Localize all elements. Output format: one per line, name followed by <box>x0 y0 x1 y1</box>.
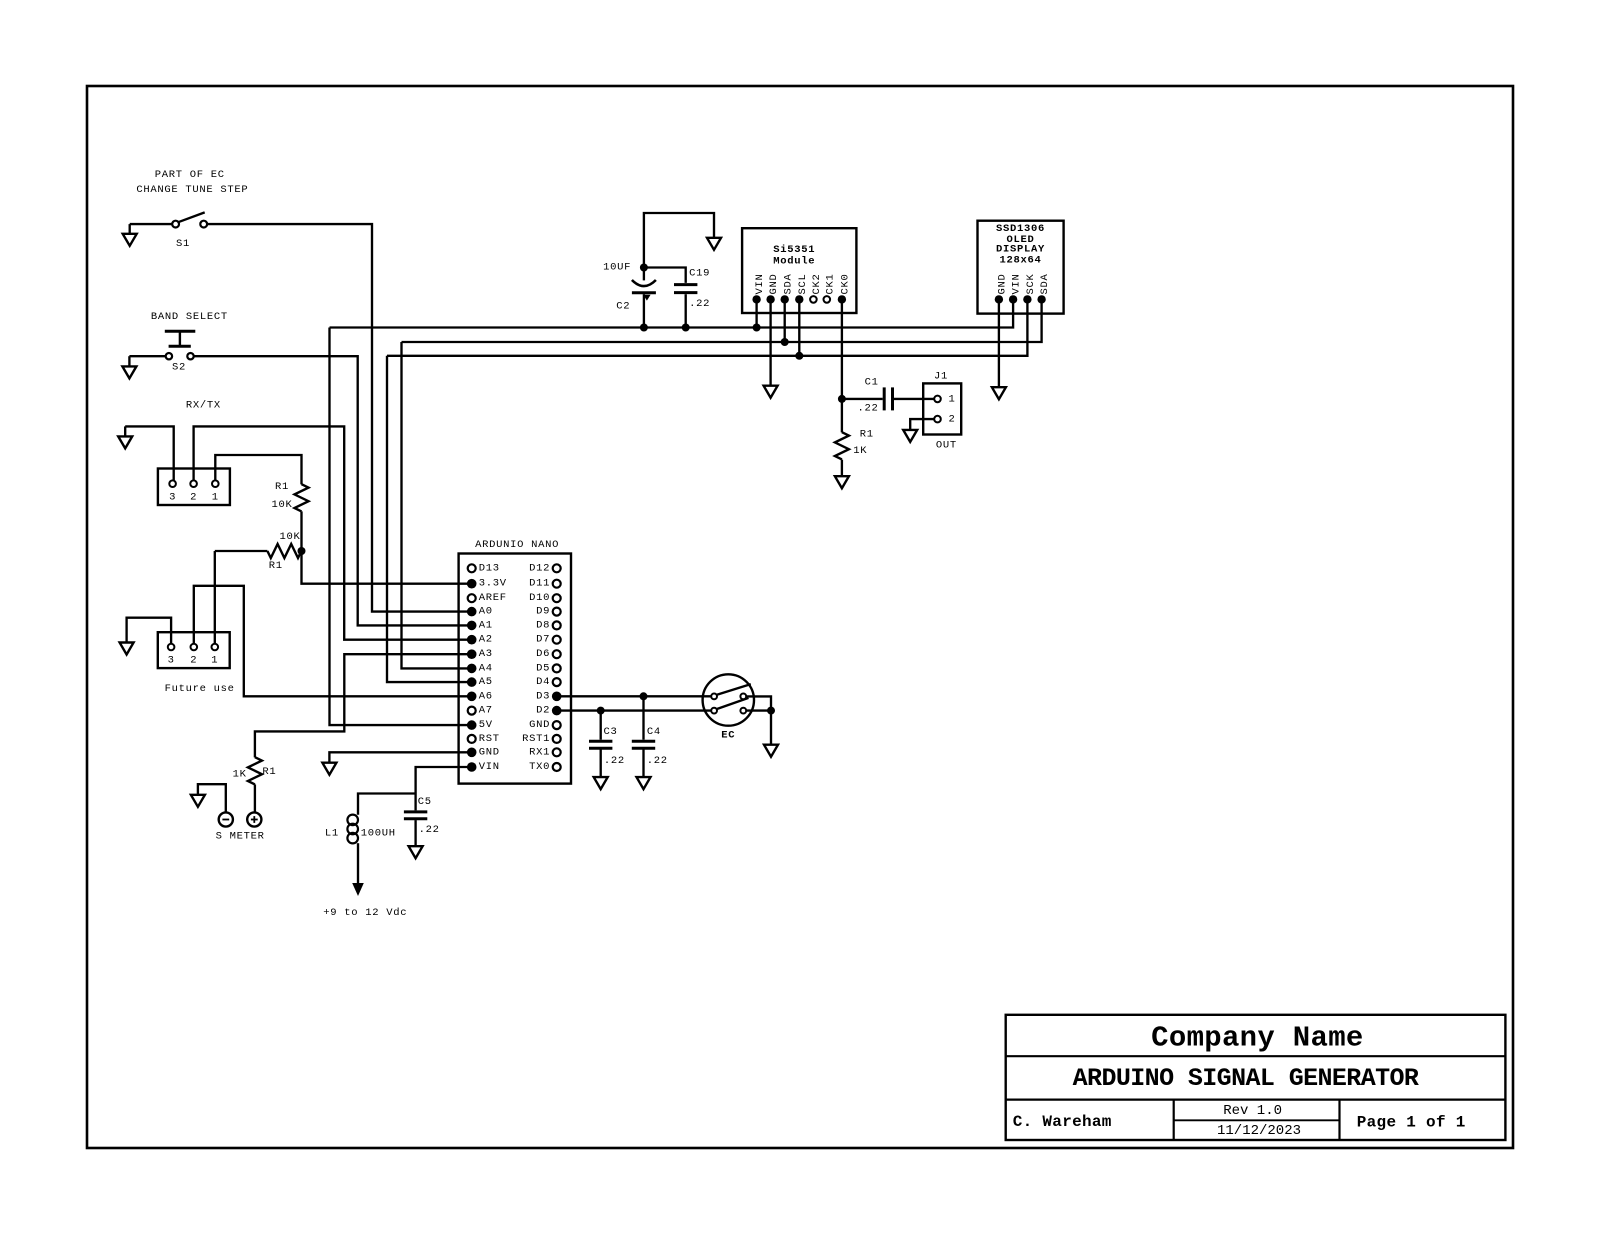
svg-text:C1: C1 <box>865 377 879 389</box>
svg-text:CK0: CK0 <box>840 273 852 294</box>
svg-text:GND: GND <box>997 273 1009 294</box>
svg-text:RST1: RST1 <box>522 733 550 745</box>
svg-text:.22: .22 <box>604 755 625 767</box>
svg-text:Rev 1.0: Rev 1.0 <box>1223 1103 1282 1119</box>
svg-text:C4: C4 <box>647 726 661 738</box>
svg-text:RX/TX: RX/TX <box>186 399 221 411</box>
svg-text:.22: .22 <box>647 755 668 767</box>
svg-text:D10: D10 <box>529 592 550 604</box>
svg-text:GND: GND <box>479 746 500 758</box>
svg-text:D6: D6 <box>536 648 550 660</box>
svg-text:A7: A7 <box>479 705 493 717</box>
svg-text:C2: C2 <box>616 301 630 313</box>
svg-text:3: 3 <box>168 655 175 667</box>
svg-text:1K: 1K <box>853 445 867 457</box>
svg-text:+9 to 12 Vdc: +9 to 12 Vdc <box>323 907 407 919</box>
svg-text:C. Wareham: C. Wareham <box>1013 1113 1112 1131</box>
svg-text:Module: Module <box>773 255 815 267</box>
svg-text:D13: D13 <box>479 562 500 574</box>
svg-text:R1: R1 <box>860 429 874 441</box>
svg-text:R1: R1 <box>269 560 283 572</box>
svg-text:.22: .22 <box>689 298 710 310</box>
svg-text:Page 1 of 1: Page 1 of 1 <box>1357 1113 1466 1131</box>
svg-text:A4: A4 <box>479 662 493 674</box>
svg-text:2: 2 <box>948 414 955 426</box>
svg-text:1K: 1K <box>233 769 247 781</box>
svg-text:A1: A1 <box>479 619 493 631</box>
svg-text:ARDUNIO NANO: ARDUNIO NANO <box>475 539 559 551</box>
svg-text:J1: J1 <box>934 370 948 382</box>
svg-text:L1: L1 <box>325 827 339 839</box>
svg-text:GND: GND <box>529 719 550 731</box>
svg-text:10K: 10K <box>271 499 292 511</box>
svg-text:ARDUINO SIGNAL GENERATOR: ARDUINO SIGNAL GENERATOR <box>1073 1064 1419 1093</box>
svg-text:A6: A6 <box>479 690 493 702</box>
svg-text:R1: R1 <box>275 481 289 493</box>
svg-text:11/12/2023: 11/12/2023 <box>1217 1123 1301 1139</box>
svg-text:D3: D3 <box>536 690 550 702</box>
svg-text:D12: D12 <box>529 562 550 574</box>
svg-text:D7: D7 <box>536 634 550 646</box>
svg-text:TX0: TX0 <box>529 761 550 773</box>
svg-text:1: 1 <box>211 655 218 667</box>
svg-text:3.3V: 3.3V <box>479 578 507 590</box>
svg-text:D2: D2 <box>536 705 550 717</box>
svg-text:GND: GND <box>768 273 780 294</box>
svg-text:PART OF EC: PART OF EC <box>155 169 225 181</box>
svg-text:CHANGE TUNE STEP: CHANGE TUNE STEP <box>136 184 248 196</box>
svg-text:S1: S1 <box>176 238 190 250</box>
svg-text:VIN: VIN <box>479 761 500 773</box>
svg-text:CK2: CK2 <box>811 273 823 294</box>
svg-text:S2: S2 <box>172 362 186 374</box>
svg-text:SCL: SCL <box>797 273 809 294</box>
svg-text:A0: A0 <box>479 606 493 618</box>
svg-text:A5: A5 <box>479 676 493 688</box>
svg-text:RX1: RX1 <box>529 746 550 758</box>
svg-text:SDA: SDA <box>1039 273 1051 294</box>
svg-text:D8: D8 <box>536 619 550 631</box>
svg-text:2: 2 <box>190 655 197 667</box>
svg-text:A3: A3 <box>479 648 493 660</box>
svg-text:Future use: Future use <box>165 683 235 695</box>
svg-text:128x64: 128x64 <box>999 255 1041 267</box>
svg-text:.22: .22 <box>419 824 440 836</box>
svg-text:5V: 5V <box>479 719 493 731</box>
svg-text:D5: D5 <box>536 662 550 674</box>
svg-text:RST: RST <box>479 733 500 745</box>
svg-text:VIN: VIN <box>754 273 766 294</box>
svg-text:EC: EC <box>721 730 735 742</box>
svg-text:Company Name: Company Name <box>1151 1022 1363 1055</box>
svg-text:VIN: VIN <box>1011 273 1023 294</box>
svg-text:1: 1 <box>948 393 955 405</box>
svg-text:10K: 10K <box>279 531 300 543</box>
svg-text:BAND SELECT: BAND SELECT <box>151 311 228 323</box>
svg-text:A2: A2 <box>479 634 493 646</box>
svg-text:CK1: CK1 <box>824 273 836 294</box>
svg-text:S METER: S METER <box>216 831 265 843</box>
svg-text:1: 1 <box>212 491 219 503</box>
svg-text:D9: D9 <box>536 606 550 618</box>
svg-text:10UF: 10UF <box>603 262 631 274</box>
svg-text:OUT: OUT <box>936 439 957 451</box>
svg-text:AREF: AREF <box>479 592 507 604</box>
svg-text:D11: D11 <box>529 578 550 590</box>
svg-text:D4: D4 <box>536 676 550 688</box>
svg-text:C19: C19 <box>689 268 710 280</box>
svg-text:C3: C3 <box>604 726 618 738</box>
svg-text:2: 2 <box>190 491 197 503</box>
svg-text:3: 3 <box>169 491 176 503</box>
svg-text:C5: C5 <box>418 796 432 808</box>
svg-text:SDA: SDA <box>782 273 794 294</box>
svg-text:R1: R1 <box>262 766 276 778</box>
svg-text:100UH: 100UH <box>361 827 396 839</box>
svg-text:.22: .22 <box>857 402 878 414</box>
svg-text:Si5351: Si5351 <box>773 244 815 256</box>
svg-text:SCK: SCK <box>1025 273 1037 294</box>
